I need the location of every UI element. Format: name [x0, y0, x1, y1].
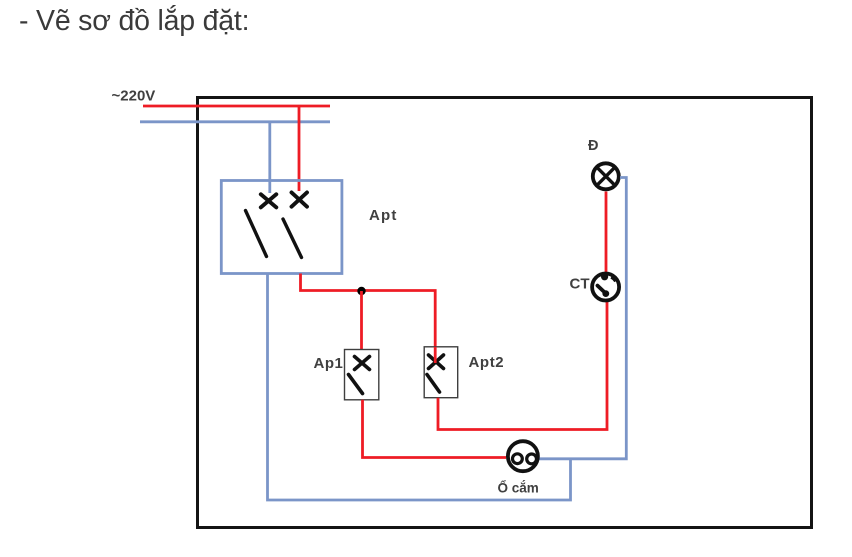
svg-text:- Vẽ sơ đồ lắp đặt:: - Vẽ sơ đồ lắp đặt: — [19, 5, 249, 37]
svg-text:CT: CT — [570, 276, 590, 293]
svg-text:Ổ cắm: Ổ cắm — [498, 481, 539, 496]
svg-text:~220V: ~220V — [112, 88, 156, 105]
svg-text:Ap1: Ap1 — [314, 355, 344, 372]
svg-text:Apt2: Apt2 — [469, 354, 505, 371]
svg-text:Apt: Apt — [369, 207, 398, 224]
svg-text:Đ: Đ — [588, 138, 598, 154]
